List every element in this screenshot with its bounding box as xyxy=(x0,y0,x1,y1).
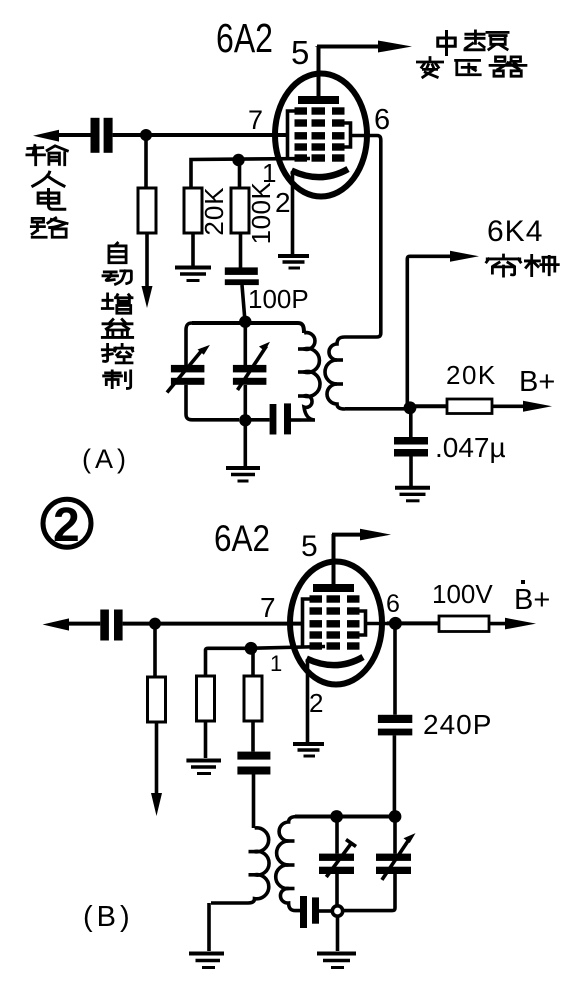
capacitor fixed padder left (B) xyxy=(335,817,339,854)
resistor 100V dropping (B) xyxy=(439,616,489,632)
capacitor series feedback (A) xyxy=(270,404,277,435)
node: junction above 100K (A) xyxy=(232,154,244,166)
svg-text:2: 2 xyxy=(275,187,291,218)
resistor AGC (B) xyxy=(153,624,157,677)
svg-text:20K: 20K xyxy=(446,360,497,390)
wire node to 20K dropping resistor (A) xyxy=(410,404,447,408)
inductor L1 oscillator tank coil (A) xyxy=(301,333,320,420)
capacitor variable left of tank (A) xyxy=(171,365,205,373)
svg-text:6K4: 6K4 xyxy=(487,215,543,248)
node: pin6 junction (B) xyxy=(389,617,402,630)
svg-text:6A2: 6A2 xyxy=(214,518,270,559)
capacitor input coupling (A) xyxy=(91,118,100,153)
wire+arrow: AGC output downward (A) xyxy=(145,233,149,290)
wire: main input wire left segment with arrow (B) xyxy=(60,622,100,626)
figure number circle 2 xyxy=(43,499,91,547)
wire+ground below tank (A) xyxy=(244,420,248,466)
svg-text:7: 7 xyxy=(248,105,263,135)
svg-text:6A2: 6A2 xyxy=(216,15,273,61)
node: ring junction (B) xyxy=(332,906,342,916)
node: tank top junction (A) xyxy=(239,316,251,328)
resistor 20K B+ dropping (A) xyxy=(447,399,492,414)
svg-text:5: 5 xyxy=(291,34,309,71)
wire: L2 bottom to node (A) xyxy=(345,407,410,411)
svg-text:6: 6 xyxy=(374,104,390,136)
svg-text:(A): (A) xyxy=(82,444,130,474)
wire: plate pin5 arrow (B) xyxy=(332,533,363,537)
capacitor variable middle of tank (A) xyxy=(244,323,248,365)
label 中频变压器 (IF transformer) xyxy=(417,31,526,77)
resistor 100K (A) xyxy=(231,188,249,233)
resistor AGC (A) xyxy=(144,135,148,188)
node: tank bottom junction (A) xyxy=(239,414,251,426)
node: junction of input wire and AGC resistor (A) xyxy=(140,129,152,141)
svg-text:100V: 100V xyxy=(432,579,493,609)
wire+ground below middle resistor (B) xyxy=(204,721,208,758)
node: tank top left junction (B) xyxy=(330,810,343,823)
capacitor 240P (B) xyxy=(393,623,397,714)
capacitor variable tuning right (B) xyxy=(393,820,397,854)
capacitor series (B) xyxy=(300,896,307,928)
wire: main input wire left segment with arrow (A) xyxy=(50,133,91,137)
capacitor 100P (A) xyxy=(225,267,258,275)
label 自动增益控制 (AGC) xyxy=(102,243,132,388)
wire 100K to 100P (A) xyxy=(239,233,243,268)
wire+ground below 20K (A) xyxy=(191,233,195,266)
label 帘栅 (screen grid) xyxy=(486,255,558,276)
svg-text:B+: B+ xyxy=(519,366,555,398)
capacitor below right resistor (B) xyxy=(251,721,255,752)
svg-text:B+: B+ xyxy=(514,584,550,616)
capacitor input coupling (B) xyxy=(100,610,109,641)
resistor 20K grid leak (A) xyxy=(184,188,202,233)
inductor L3 feedback coil (B) xyxy=(211,828,269,903)
wire: tank top (B) xyxy=(295,815,395,819)
svg-text:240P: 240P xyxy=(423,709,492,740)
wire+ground below L3 (B) xyxy=(207,903,211,951)
tube V1 (6A2 heptode, circuit A) xyxy=(275,46,372,268)
svg-text:100P: 100P xyxy=(248,284,309,314)
node: junction input/AGC (B) xyxy=(149,618,161,630)
node: junction pin1 wire (B) xyxy=(245,642,258,655)
wire+arrow: AGC downward (B) xyxy=(155,722,159,797)
wire: tank bottom to series cap (A) xyxy=(245,418,269,422)
wire: tank top (A) xyxy=(192,323,304,333)
wire: plate pin5 to IF transformer arrow (A) xyxy=(315,44,319,48)
wire: tank left side lower (A) xyxy=(186,385,239,420)
svg-text:100K: 100K xyxy=(246,181,276,244)
svg-text:7: 7 xyxy=(260,592,276,623)
wire: pin6 down to L2 top (A) xyxy=(345,136,381,338)
wire pin1 grid wire (B) xyxy=(251,647,325,649)
svg-text:2: 2 xyxy=(309,688,323,718)
wire: tank left side upper (A) xyxy=(186,323,192,365)
svg-text:2: 2 xyxy=(53,499,80,552)
capacitor .047u bypass (A) xyxy=(409,408,413,437)
svg-text:6: 6 xyxy=(386,590,400,618)
inductor L4 tank coil (B) xyxy=(276,817,300,911)
svg-text:20K: 20K xyxy=(199,186,229,235)
label 输入电路 (input circuit) xyxy=(27,145,67,237)
node: tank top right junction (B) xyxy=(389,810,402,823)
svg-text:(B): (B) xyxy=(83,901,134,933)
tube V2 (6A2 heptode, circuit B) xyxy=(290,534,387,756)
resistor grid-leak middle (B) xyxy=(206,648,252,676)
wire+arrow to 6K4 screen grid (A) xyxy=(407,256,456,407)
svg-text:1: 1 xyxy=(270,651,282,676)
svg-text:.047µ: .047µ xyxy=(435,432,506,463)
node: B+ junction (A) xyxy=(404,401,417,414)
wire: top of 20K/100K to pin1 grid wire (A) xyxy=(191,159,310,189)
wire: main input wire right segment to pin7 (B) xyxy=(123,622,303,626)
ground below .047u (A) xyxy=(395,486,430,490)
wire pin6 to 100V resistor (B) xyxy=(387,621,439,625)
resistor right (B) xyxy=(251,648,255,676)
wire: main input wire right segment to pin7 (A) xyxy=(113,133,288,137)
svg-text:5: 5 xyxy=(301,530,318,563)
inductor L2 coupling coil (A) xyxy=(325,337,345,409)
wire+ground below ring junction (B) xyxy=(336,917,340,952)
